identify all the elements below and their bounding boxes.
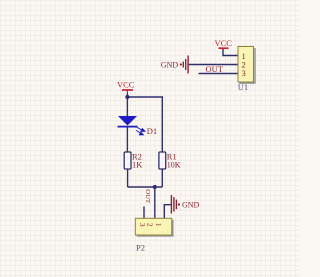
- svg-text:OUT: OUT: [206, 64, 224, 74]
- svg-text:OUT: OUT: [144, 189, 151, 203]
- svg-text:P2: P2: [136, 243, 145, 253]
- svg-text:3: 3: [138, 223, 147, 227]
- svg-text:3: 3: [242, 68, 246, 78]
- svg-text:GND: GND: [161, 61, 179, 70]
- svg-text:D1: D1: [147, 126, 157, 136]
- svg-text:U1: U1: [238, 82, 248, 92]
- svg-text:GND: GND: [182, 201, 200, 210]
- svg-text:10K: 10K: [167, 161, 181, 170]
- svg-text:VCC: VCC: [215, 38, 233, 48]
- svg-text:1K: 1K: [132, 160, 143, 170]
- svg-text:2: 2: [146, 223, 155, 227]
- svg-text:VCC: VCC: [117, 80, 135, 90]
- svg-text:1: 1: [154, 223, 163, 227]
